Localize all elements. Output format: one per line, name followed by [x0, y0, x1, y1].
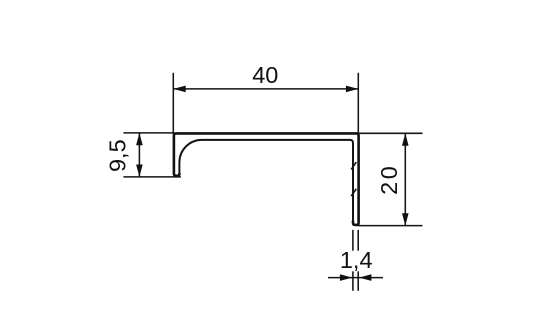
svg-text:9,5: 9,5	[104, 139, 130, 172]
svg-text:1,4: 1,4	[340, 247, 373, 273]
svg-text:20: 20	[376, 164, 402, 195]
svg-text:40: 40	[252, 62, 278, 88]
